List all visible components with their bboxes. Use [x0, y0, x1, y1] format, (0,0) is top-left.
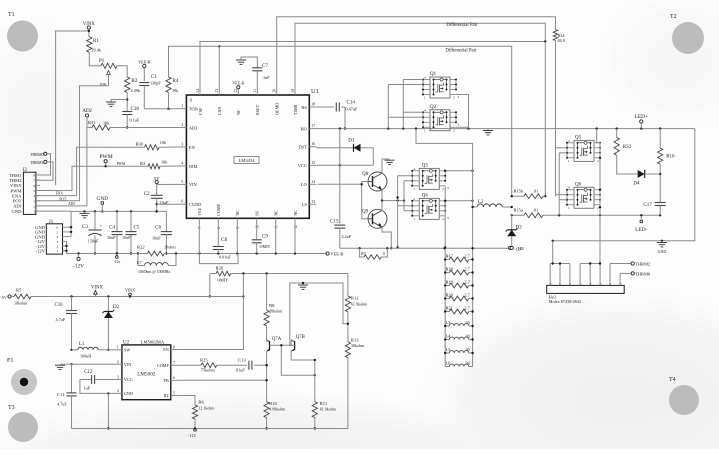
svg-text:CGND: CGND — [189, 202, 201, 207]
transistor Q3 — [411, 164, 446, 192]
capacitor C2 — [144, 192, 180, 213]
transistor Q6 — [566, 183, 601, 210]
svg-text:L4: L4 — [446, 334, 452, 339]
resistor R20 — [444, 293, 474, 301]
svg-text:2: 2 — [181, 123, 183, 127]
wire POT run — [36, 86, 109, 201]
wire ADJ run J2 — [36, 128, 87, 206]
svg-text:VEE: VEE — [197, 207, 202, 216]
wire pin12 — [294, 224, 296, 253]
svg-text:EN: EN — [163, 347, 169, 352]
terminal 5V left — [1, 295, 12, 300]
svg-text:LO: LO — [301, 182, 307, 187]
svg-text:LM5002MA: LM5002MA — [141, 339, 165, 344]
svg-text:-12V: -12V — [36, 249, 46, 254]
svg-text:10kohm: 10kohm — [14, 301, 28, 306]
svg-text:R3: R3 — [140, 161, 146, 166]
diode D4 — [617, 155, 661, 186]
svg-text:T3: T3 — [8, 405, 15, 411]
svg-text:3: 3 — [447, 186, 449, 190]
svg-text:15: 15 — [311, 161, 315, 165]
resistor R4 — [166, 77, 179, 109]
svg-text:CSP: CSP — [198, 107, 203, 115]
wire VEE loop — [199, 254, 238, 264]
svg-text:C5: C5 — [134, 226, 140, 231]
svg-text:0.1uF: 0.1uF — [130, 118, 140, 123]
connector J1 — [35, 220, 66, 254]
svg-text:VINX: VINX — [91, 286, 104, 291]
svg-text:LM3434: LM3434 — [238, 158, 255, 163]
svg-text:R12: R12 — [351, 296, 359, 301]
svg-text:1: 1 — [34, 210, 36, 214]
wire PWM run — [36, 165, 148, 190]
svg-text:D2: D2 — [113, 305, 120, 310]
wire J1 12v pins — [63, 241, 68, 253]
svg-text:GND: GND — [96, 196, 108, 202]
wire Q2 out — [456, 123, 469, 129]
svg-text:HO: HO — [300, 126, 306, 131]
svg-text:10ohm: 10ohm — [164, 245, 176, 250]
svg-text:THRM1: THRM1 — [30, 160, 44, 165]
ground cap bank — [80, 211, 90, 217]
inductor L3 — [444, 320, 474, 327]
svg-text:Q6: Q6 — [575, 183, 582, 188]
resistor R17 — [444, 254, 474, 262]
svg-text:18: 18 — [311, 103, 315, 107]
wire pin9 — [236, 224, 238, 253]
svg-text:.1uF: .1uF — [262, 75, 270, 80]
svg-text:4.7uF: 4.7uF — [56, 317, 66, 322]
capacitor C13 — [235, 358, 268, 373]
wire sense vert — [544, 42, 546, 198]
resistor R32 — [614, 129, 632, 156]
svg-text:2: 2 — [57, 245, 59, 249]
svg-text:Q7A: Q7A — [272, 337, 282, 342]
capacitor C9 — [252, 224, 271, 253]
svg-text:R30: R30 — [136, 142, 144, 147]
svg-text:20: 20 — [273, 89, 277, 93]
svg-text:VEE-R: VEE-R — [330, 252, 343, 257]
terminal LED- — [635, 214, 647, 233]
svg-text:46.9: 46.9 — [558, 38, 565, 43]
wire Q9 emitter — [382, 227, 392, 250]
svg-text:U1: U1 — [311, 88, 319, 95]
connector J2 — [9, 168, 40, 214]
svg-text:2.7: 2.7 — [465, 293, 470, 298]
svg-text:R32: R32 — [623, 145, 632, 150]
svg-text:R18: R18 — [446, 267, 454, 272]
svg-text:GND: GND — [124, 391, 133, 396]
svg-text:4: 4 — [57, 235, 59, 239]
svg-text:6: 6 — [34, 184, 36, 188]
svg-text:Q9: Q9 — [362, 210, 369, 215]
svg-text:10uF: 10uF — [152, 236, 161, 241]
svg-text:3: 3 — [57, 240, 59, 244]
svg-text:6: 6 — [57, 226, 59, 230]
svg-text:20kohm: 20kohm — [269, 309, 283, 314]
svg-text:1: 1 — [181, 104, 183, 108]
wire C15 vert — [339, 129, 341, 224]
transistor Q8 — [362, 172, 387, 191]
ground right — [657, 241, 667, 254]
capacitor C7 — [252, 64, 270, 88]
svg-text:LED-: LED- — [635, 227, 647, 233]
resistor R1 — [87, 37, 102, 53]
resistor R13 — [345, 338, 365, 429]
svg-text:29.4k: 29.4k — [92, 48, 102, 53]
svg-text:1uF: 1uF — [84, 386, 91, 391]
svg-text:DIM: DIM — [189, 164, 198, 169]
svg-text:Molex 87438-0843: Molex 87438-0843 — [549, 299, 581, 304]
svg-text:4: 4 — [181, 162, 183, 166]
op-amp U1 LM3434 — [179, 88, 319, 229]
resistor R6 — [178, 396, 216, 439]
svg-text:10k: 10k — [103, 121, 110, 126]
terminal THRM1 left — [30, 160, 53, 180]
svg-text:1: 1 — [117, 346, 119, 350]
svg-text:10uF: 10uF — [160, 200, 169, 205]
svg-text:C13: C13 — [238, 358, 246, 363]
wire Q9 collector — [381, 201, 383, 211]
svg-text:R15a: R15a — [514, 208, 523, 213]
svg-text:3: 3 — [34, 199, 36, 203]
wire U2 gnd — [107, 393, 115, 429]
svg-text:OMIT: OMIT — [260, 244, 271, 249]
svg-text:THRM2: THRM2 — [635, 262, 650, 267]
svg-text:D3: D3 — [516, 226, 523, 231]
wire VEE rail — [198, 252, 326, 254]
svg-text:10k: 10k — [161, 160, 168, 165]
svg-text:2.2uF: 2.2uF — [342, 234, 352, 239]
wire R4-top rail — [169, 46, 512, 196]
ground Q7 loop — [298, 282, 308, 290]
svg-text:OMIT: OMIT — [217, 278, 228, 283]
ground R2 — [106, 100, 116, 107]
svg-text:FB: FB — [164, 378, 169, 383]
resistor R18 — [444, 267, 474, 275]
wire J2 gnd — [36, 198, 75, 212]
svg-text:.01: .01 — [533, 189, 538, 194]
wire bottom rail — [72, 427, 348, 429]
svg-text:GND: GND — [658, 249, 667, 254]
svg-text:22: 22 — [234, 89, 238, 93]
svg-text:30: 30 — [466, 334, 470, 339]
svg-text:NC: NC — [293, 210, 298, 216]
wire Q7A emitter — [265, 351, 267, 401]
svg-text:Q4: Q4 — [422, 194, 429, 199]
terminal VEE-R — [326, 252, 343, 257]
svg-text:R21: R21 — [446, 306, 453, 311]
svg-text:R5: R5 — [16, 288, 22, 293]
svg-text:39k: 39k — [172, 88, 179, 93]
svg-text:0: 0 — [383, 251, 385, 256]
svg-text:NC: NC — [236, 109, 241, 115]
svg-text:VINX: VINX — [125, 288, 135, 293]
wire Q3 drain — [444, 170, 474, 172]
capacitor C18 — [122, 107, 140, 129]
svg-text:100Ohm @ 100MHz: 100Ohm @ 100MHz — [138, 270, 170, 274]
capacitor C10 — [55, 297, 78, 366]
resistor R15b — [511, 189, 546, 199]
svg-text:10uF: 10uF — [107, 235, 116, 240]
transistor Q9 — [362, 209, 387, 228]
wire Q8 emitter node — [381, 190, 405, 202]
terminal 5V — [154, 176, 160, 185]
terminal -12v small — [113, 254, 120, 265]
wire ENA run — [36, 147, 145, 195]
svg-text:7: 7 — [198, 227, 202, 229]
wire HO rail — [316, 127, 695, 129]
wire -12V rail — [67, 252, 140, 254]
wire Q6 feeds — [556, 195, 568, 200]
svg-text:RSET: RSET — [255, 104, 260, 115]
svg-text:-12v: -12v — [113, 260, 120, 264]
connector He3 — [547, 282, 625, 305]
svg-text:C11: C11 — [57, 392, 65, 397]
terminal VINX flag — [91, 286, 104, 297]
svg-text:61.9kohm: 61.9kohm — [351, 301, 368, 306]
svg-text:100uH: 100uH — [80, 354, 91, 359]
svg-text:J2: J2 — [23, 168, 28, 173]
svg-text:LS: LS — [302, 202, 308, 207]
svg-text:RT: RT — [164, 393, 170, 398]
svg-text:11: 11 — [275, 225, 279, 229]
wire LED- rail — [545, 214, 661, 216]
wire He3 led bus — [580, 262, 601, 281]
svg-text:DST: DST — [299, 145, 308, 150]
capacitor C6 — [152, 211, 172, 254]
wire J1 gnd pins — [67, 211, 73, 236]
svg-text:8: 8 — [217, 227, 221, 229]
resistor R2 — [125, 77, 141, 93]
svg-text:6: 6 — [181, 200, 183, 204]
svg-text:30: 30 — [466, 361, 470, 366]
svg-text:F1: F1 — [7, 358, 13, 364]
wire CSP rail — [200, 40, 547, 88]
svg-text:5: 5 — [181, 180, 183, 184]
wire R2 bottom — [111, 93, 128, 112]
ground C7 — [236, 57, 257, 68]
svg-text:4.7uF: 4.7uF — [57, 402, 67, 407]
svg-text:2.49k: 2.49k — [131, 88, 141, 93]
svg-text:R20: R20 — [446, 293, 454, 298]
wire Q4 drain — [445, 200, 474, 202]
svg-text:SS: SS — [255, 210, 260, 215]
wire gate feed B — [403, 80, 423, 129]
svg-text:5: 5 — [173, 391, 175, 395]
svg-text:TIMR: TIMR — [293, 104, 298, 115]
svg-text:NC: NC — [235, 210, 240, 216]
svg-text:3: 3 — [181, 143, 183, 147]
svg-text:-12V: -12V — [73, 264, 84, 270]
svg-text:2: 2 — [117, 360, 119, 364]
svg-text:LM5002: LM5002 — [137, 372, 156, 378]
svg-text:L5: L5 — [446, 347, 452, 352]
wire pin11 — [275, 224, 277, 253]
svg-text:-5V: -5V — [1, 295, 7, 300]
svg-text:VCC: VCC — [124, 377, 133, 382]
svg-text:DEMO: DEMO — [275, 103, 280, 115]
wire FB — [178, 379, 268, 381]
fiducial F1 — [7, 358, 37, 395]
terminal ADJ — [82, 108, 92, 128]
svg-text:R2: R2 — [132, 79, 138, 84]
svg-text:C15: C15 — [330, 220, 339, 225]
wire gate feed A — [388, 85, 423, 129]
transistor Q1 — [422, 72, 457, 100]
terminal VEE-R c1 — [138, 60, 151, 82]
resistor R7 — [360, 248, 388, 259]
diode D1 — [316, 139, 373, 166]
svg-text:COMP: COMP — [216, 203, 221, 216]
ground Q8 — [382, 159, 395, 173]
capacitor C17 — [643, 200, 665, 215]
svg-text:C17: C17 — [643, 203, 652, 208]
svg-text:2: 2 — [458, 123, 460, 127]
svg-text:2: 2 — [34, 204, 36, 208]
resistor R22 — [137, 245, 199, 256]
capacitor C4 — [107, 211, 123, 254]
terminal VEE-R c2 — [232, 81, 244, 89]
svg-text:VIN: VIN — [124, 362, 131, 367]
svg-text:6: 6 — [173, 376, 175, 380]
svg-text:COMP: COMP — [157, 363, 170, 368]
resistor R21 — [444, 306, 474, 314]
svg-text:T1: T1 — [8, 12, 15, 18]
svg-text:10K: 10K — [99, 82, 107, 87]
svg-text:C12: C12 — [84, 370, 93, 375]
resistor R34 — [553, 17, 565, 196]
wire Q1 out — [456, 95, 469, 129]
svg-text:5: 5 — [34, 189, 36, 193]
wire LO to bases — [317, 182, 363, 219]
inductor L6 — [445, 361, 472, 367]
svg-text:J1: J1 — [49, 220, 54, 225]
svg-text:PWM: PWM — [99, 154, 112, 160]
wire gate bus Q3 — [396, 176, 412, 249]
ground HO rail — [483, 129, 493, 135]
svg-text:5: 5 — [57, 230, 59, 234]
svg-text:R31: R31 — [88, 120, 95, 125]
wire Q7B emitter — [291, 351, 316, 401]
svg-text:L6: L6 — [446, 361, 452, 366]
resistor R19 — [444, 280, 474, 288]
svg-text:3: 3 — [447, 216, 449, 220]
svg-text:1: 1 — [57, 249, 59, 253]
capacitor C1 — [139, 75, 161, 109]
capacitor C12 — [80, 370, 115, 395]
svg-text:12.1kohm: 12.1kohm — [198, 406, 215, 411]
svg-text:D4: D4 — [633, 182, 640, 187]
capacitor C11 — [57, 364, 77, 428]
svg-text:7: 7 — [34, 179, 36, 183]
ground U2 vin — [55, 364, 72, 369]
wire pin7 — [198, 224, 200, 253]
svg-text:8: 8 — [173, 345, 175, 349]
svg-text:LED+: LED+ — [635, 114, 649, 120]
svg-text:VCC: VCC — [298, 163, 307, 168]
svg-text:GND: GND — [12, 209, 23, 214]
svg-text:30kohm: 30kohm — [351, 343, 365, 348]
svg-text:2.7: 2.7 — [465, 306, 470, 311]
label Q3 pin3 — [447, 186, 449, 220]
svg-text:C7: C7 — [262, 64, 268, 69]
svg-text:30: 30 — [466, 320, 470, 325]
svg-text:4: 4 — [34, 194, 36, 198]
wire gate bus Q4 — [398, 206, 413, 211]
terminal THRM2 — [610, 262, 650, 282]
wire He3 gnd bus — [550, 241, 570, 282]
svg-text:R15b: R15b — [514, 189, 524, 194]
svg-text:C14: C14 — [347, 101, 356, 106]
svg-text:T2: T2 — [670, 14, 677, 20]
transistor Q5 — [566, 136, 601, 164]
svg-text:Differential Pair: Differential Pair — [446, 23, 478, 28]
resistor R26 — [210, 266, 348, 283]
svg-text:C8: C8 — [221, 238, 227, 243]
capacitor C14 — [316, 101, 358, 130]
svg-text:ADJ: ADJ — [68, 202, 75, 206]
diode D3 — [506, 215, 525, 251]
svg-text:T4: T4 — [669, 377, 676, 383]
svg-text:ADJ: ADJ — [82, 108, 92, 114]
svg-text:L7: L7 — [137, 260, 143, 265]
wire Q5 feeds — [556, 148, 568, 216]
svg-text:P1: P1 — [99, 59, 105, 64]
svg-text:C1: C1 — [151, 75, 157, 80]
resistor R12 — [345, 274, 368, 342]
fiducial T4 — [669, 377, 699, 415]
terminal LED+ — [635, 114, 649, 129]
svg-text:0.01uF: 0.01uF — [219, 255, 231, 260]
capacitor C15 — [330, 220, 352, 249]
inductor L7 — [137, 254, 176, 275]
diode D2 — [102, 297, 119, 351]
svg-text:R11: R11 — [320, 401, 328, 406]
svg-text:THRM0: THRM0 — [635, 271, 651, 276]
resistor R3 — [140, 160, 179, 169]
wire drain bus — [416, 129, 473, 367]
svg-text:R6: R6 — [198, 400, 204, 405]
resistor R5 — [11, 288, 95, 306]
svg-text:R22: R22 — [137, 245, 145, 250]
wire DEMO to R34 rail — [277, 17, 556, 88]
svg-text:61.9kohm: 61.9kohm — [320, 407, 337, 412]
wire VCC — [316, 164, 373, 166]
svg-text:Q2: Q2 — [430, 105, 437, 110]
svg-text:VEE-R: VEE-R — [138, 60, 151, 65]
wire R26 left drop — [209, 274, 211, 298]
terminal -12V big — [73, 254, 84, 270]
wire TON — [144, 108, 179, 110]
svg-text:23: 23 — [215, 89, 219, 93]
svg-text:2.7: 2.7 — [465, 280, 470, 285]
svg-text:.01uF: .01uF — [235, 368, 245, 373]
svg-text:C6: C6 — [155, 226, 161, 231]
resistor R15a — [511, 208, 546, 218]
svg-text:D1: D1 — [348, 139, 355, 144]
svg-text:14: 14 — [311, 180, 315, 184]
svg-text:Q3: Q3 — [422, 164, 429, 169]
svg-text:PWM: PWM — [117, 162, 126, 166]
svg-text:EN: EN — [189, 145, 196, 150]
svg-text:C18: C18 — [131, 107, 140, 112]
wire cap top rail — [71, 210, 166, 212]
wire VINX rail — [70, 295, 244, 297]
resistor R10 — [264, 401, 286, 430]
wire P1 to R2 — [117, 66, 127, 77]
svg-text:9: 9 — [236, 227, 240, 229]
